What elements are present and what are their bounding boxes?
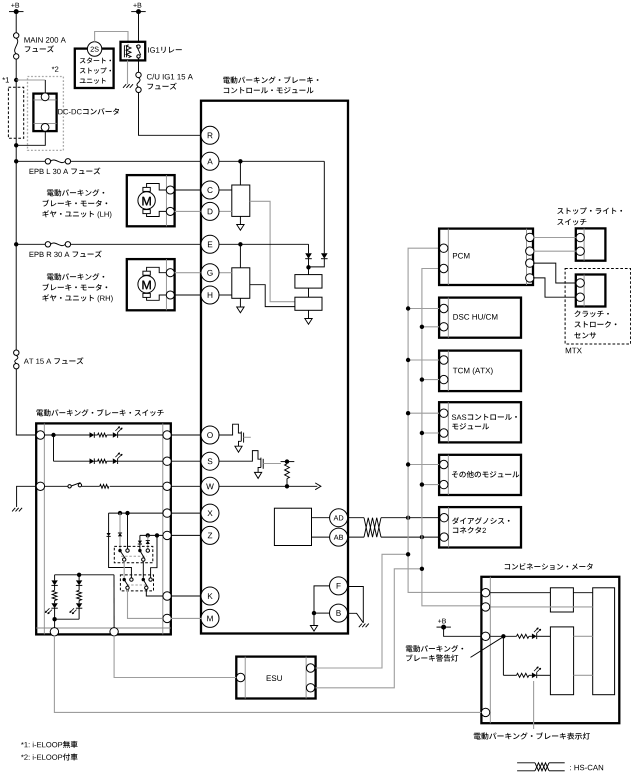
regulator block upper — [295, 275, 322, 289]
wire rail to AT fuse — [15, 244, 17, 350]
twisted pair braid AD/AB — [364, 518, 381, 537]
LED indicator lamp — [529, 667, 551, 678]
resistor indicator lamp — [517, 673, 529, 677]
label PCM — [453, 253, 469, 259]
terminal E — [201, 235, 219, 253]
wire Z mid branch 2 — [147, 544, 149, 549]
terminal O — [201, 426, 219, 444]
label AT 15 A fuse — [24, 357, 84, 364]
node DSC bus1 — [406, 306, 410, 310]
switch contact UL — [118, 549, 129, 561]
wire UL to lower block — [123, 561, 125, 578]
wire DSC to bus2 — [422, 326, 439, 328]
terminal switch X-right — [163, 509, 171, 517]
EPB switch connector strips — [36, 423, 171, 634]
wire AD to braid — [347, 517, 364, 519]
wire G to driver RH — [219, 272, 232, 274]
wire A-row internal — [219, 160, 324, 162]
relay IG1 coil — [124, 45, 131, 58]
wire pull-up top bar — [281, 459, 295, 463]
terminal motor RH pins — [166, 269, 174, 299]
clutch stroke sensor box — [576, 275, 606, 307]
fuse AT 15 A — [14, 350, 19, 369]
wire X mid branch 2 — [119, 537, 121, 550]
label diagnosis connector 2 — [452, 517, 510, 533]
node Z branch 2 — [155, 533, 159, 537]
node X branch 1 — [118, 511, 122, 515]
terminal A — [201, 152, 219, 170]
wire left rail — [15, 80, 17, 161]
wire O to transistor Q1 — [219, 424, 242, 435]
terminal switch bottom-1 — [50, 628, 58, 636]
wire driver RH ground stem — [239, 298, 241, 307]
terminal G — [201, 264, 219, 282]
fuse MAIN 200 A — [14, 33, 19, 59]
wire regulator ground stem — [308, 310, 310, 318]
wire D to driver LH — [219, 210, 232, 212]
label MTX — [566, 348, 582, 354]
wire A node to driver LH — [239, 161, 241, 185]
wire +B to MAIN fuse — [15, 12, 17, 33]
wire PCM to stop light switch 2 — [533, 250, 576, 252]
wire Z terminal to module — [171, 534, 201, 536]
resistor O row — [98, 433, 107, 437]
diode D2 (A branch) — [321, 253, 328, 258]
PCM box — [439, 229, 533, 285]
terminal B — [330, 604, 348, 622]
wire relay coil to ground — [127, 60, 129, 84]
terminal H — [201, 286, 219, 304]
wire Z left branch 2 — [139, 544, 141, 549]
node strings bottom — [52, 617, 56, 621]
PCM terminals left — [440, 244, 448, 273]
wire C to driver LH — [219, 189, 232, 191]
relay IG1 box — [121, 42, 146, 61]
stop light switch terminals — [576, 233, 584, 255]
dashed box *1 (i-ELOOP none) — [8, 87, 23, 138]
wire LL to M — [128, 590, 163, 619]
PCM terminals right — [526, 233, 534, 282]
wire lamp block to main 2 — [574, 674, 593, 676]
node other bus2 — [420, 482, 424, 486]
terminal switch S-right — [163, 457, 171, 465]
wire relay to C/U fuse — [138, 58, 140, 72]
wire E-row internal — [219, 243, 309, 245]
SAS control module box — [439, 402, 521, 442]
wire B internal — [314, 612, 330, 614]
wire DC-DC converter return — [16, 131, 45, 145]
wire 2S to relay coil — [95, 32, 128, 45]
DSC HU/CM box — [439, 298, 521, 338]
terminal switch bottom-2 — [110, 628, 118, 636]
terminal S — [201, 452, 219, 470]
label *2 — [52, 66, 59, 71]
relay IG1 contact — [136, 45, 141, 58]
node strings top — [77, 573, 81, 577]
node DSC bus2 — [420, 325, 424, 329]
wire AB to diagnosis — [381, 536, 439, 538]
wire S row — [54, 460, 163, 462]
wire O row — [45, 434, 163, 436]
terminal X — [201, 504, 219, 522]
terminal 2S — [87, 42, 101, 56]
wire switch to meter row4 — [54, 636, 481, 713]
label MAIN 200 A fuse — [24, 37, 65, 52]
resistor warning lamp — [517, 634, 529, 638]
wire E node to driver RH — [239, 244, 241, 267]
node A internal — [238, 159, 242, 163]
wire K terminal to module — [171, 595, 201, 597]
ESU terminals — [236, 664, 314, 692]
battery +B (meter) — [437, 619, 451, 630]
TCM terminals — [440, 356, 448, 384]
wire Z left branch — [139, 535, 141, 540]
node SAS bus2 — [420, 431, 424, 435]
TCM box — [439, 351, 521, 392]
switch contact LR — [142, 578, 153, 590]
leader warning lamp label — [471, 637, 504, 658]
wire SAS to bus2 — [422, 432, 439, 434]
label TCM (ATX) — [453, 368, 493, 375]
switch contact LL — [123, 578, 134, 590]
wire driver RH output — [250, 285, 295, 307]
wire X left branch 2 — [109, 537, 132, 578]
wire Z mid branch — [147, 535, 149, 540]
diagnosis connector 2 box — [439, 507, 521, 547]
diode O row — [90, 432, 95, 438]
label other modules — [452, 471, 519, 478]
wire W row — [45, 485, 163, 487]
wire TCM to bus2 — [422, 379, 439, 381]
label EPB indicator lamp — [474, 732, 590, 739]
wire A branch to diode — [323, 161, 325, 253]
wire TCM to bus1 — [408, 359, 439, 361]
ESU box — [236, 657, 315, 699]
SAS terminals — [440, 409, 448, 437]
node A-row on rail — [14, 159, 18, 163]
fuse C/U IG1 15 A — [136, 72, 141, 92]
wire Z row — [140, 534, 163, 536]
node W pull-up — [285, 484, 289, 488]
diode string1 top — [51, 575, 57, 586]
regulator block lower — [295, 297, 322, 310]
diode X left — [107, 533, 111, 536]
wire O terminal to module — [171, 434, 201, 436]
ground regulator — [305, 319, 312, 325]
EPB motor gear unit LH box — [127, 175, 175, 226]
wire X left branch — [108, 513, 110, 533]
note *1 — [21, 741, 78, 748]
wire rail to bottom terminal 2 — [113, 575, 115, 628]
label EPB motor gear unit LH — [42, 189, 111, 218]
wire X mid branch — [119, 513, 121, 533]
ground chassis F/B — [359, 624, 369, 628]
switch contact UR — [138, 549, 149, 561]
wire string1 bottom — [54, 608, 56, 627]
LED string2 — [70, 601, 83, 614]
wire node *1 to DC-DC converter — [16, 80, 45, 94]
fuse EPB R 30 A — [45, 242, 70, 247]
wire H to driver RH — [219, 294, 232, 296]
wire W internal — [219, 485, 317, 487]
wire meter row1 — [490, 592, 550, 594]
wire UR to lower block — [142, 561, 144, 578]
resistor string1 — [52, 585, 57, 600]
switch lower mechanical link — [127, 584, 148, 586]
meter lamp block — [550, 627, 573, 695]
meter main block — [593, 588, 615, 695]
other modules terminals — [440, 460, 448, 489]
label EPB control module — [223, 76, 318, 93]
wire AB to braid — [347, 536, 364, 538]
node O/S branch — [51, 433, 55, 437]
label DC-DC converter — [58, 108, 119, 115]
wire motor RH to terminal G — [175, 272, 202, 274]
ground transistor Q2 — [255, 472, 262, 478]
LED S row — [113, 453, 122, 464]
terminal D — [201, 202, 219, 220]
wire MAIN fuse to node *1 — [15, 59, 17, 80]
dashed box *2 (i-ELOOP equipped) — [28, 77, 64, 151]
wire LR to K — [146, 590, 163, 597]
wire string2 bottom — [55, 608, 80, 619]
node SAS bus1 — [406, 411, 410, 415]
wire EPB L fuse to terminal A — [71, 160, 202, 162]
fuse EPB L 30 A — [45, 159, 70, 164]
terminal switch Z-right — [163, 531, 171, 539]
terminal motor LH pins — [166, 186, 174, 216]
node Z branch 1 — [146, 533, 150, 537]
label DSC HU/CM — [453, 314, 497, 320]
resistor S row — [98, 459, 107, 463]
leader indicator lamp label — [533, 681, 535, 729]
wire ESU to bus1 — [316, 554, 409, 668]
wire SAS to bus1 — [408, 412, 439, 414]
wire other to bus1 — [408, 464, 439, 466]
node E internal — [238, 242, 242, 246]
label EPB switch — [36, 409, 163, 416]
label combination meter — [505, 563, 593, 570]
motor M LH — [138, 187, 155, 213]
wire EPB R fuse to terminal E — [71, 243, 202, 245]
wire CAN block to AD — [312, 517, 330, 519]
label ESU — [267, 675, 282, 681]
wire F/B ground stem — [313, 613, 315, 625]
terminal K — [201, 587, 219, 605]
node diodes junction — [306, 259, 310, 275]
LED warning lamp — [529, 628, 551, 639]
ground driver LH — [237, 225, 244, 231]
transistor Q1 — [239, 431, 251, 446]
ground relay coil — [123, 84, 133, 88]
wire AT fuse to switch box — [16, 369, 36, 435]
wire X row — [109, 512, 163, 514]
start-stop unit box — [75, 49, 114, 88]
wire meter row2 — [490, 606, 592, 608]
combination meter box — [481, 577, 619, 723]
wire switch to ESU — [114, 636, 236, 678]
label EPB L 30 A fuse — [30, 167, 101, 174]
other modules box — [439, 455, 521, 495]
wire regulator blocks link — [308, 288, 310, 297]
ground W — [12, 508, 22, 512]
wire HS-CAN bus 2 — [422, 269, 482, 606]
wire F internal to ground — [314, 586, 330, 613]
wire +B to meter — [444, 627, 482, 636]
legend HS-CAN symbol — [517, 763, 565, 771]
wire driver LH output — [250, 201, 295, 301]
clutch stroke sensor terminals — [576, 279, 584, 302]
wire rail to EPB L fuse — [16, 160, 45, 162]
EPB control module box — [201, 101, 348, 634]
diode string2 top — [76, 575, 82, 586]
wire PCM to clutch sensor 2 — [533, 278, 576, 297]
DSC terminals — [440, 304, 448, 331]
node TCM bus2 — [420, 377, 424, 381]
wire motor RH to terminal H — [175, 294, 202, 296]
terminal AD — [330, 509, 348, 527]
diode D1 (E branch) — [305, 253, 312, 258]
wire S branch — [53, 435, 55, 461]
wire M terminal to module — [171, 617, 201, 619]
wire X terminal to module — [171, 512, 201, 514]
EPB motor gear unit RH box — [127, 259, 175, 310]
LED string1 — [45, 601, 58, 614]
dashed box MTX — [565, 269, 631, 345]
resistor string2 — [77, 585, 82, 600]
diode Z left — [138, 541, 142, 544]
wire motor LH to terminal C — [175, 189, 202, 191]
node E-row on rail — [14, 161, 18, 246]
node TCM bus1 — [406, 358, 410, 362]
ground driver RH — [237, 307, 244, 313]
terminal M — [201, 609, 219, 627]
wire HS-CAN bus 1 — [408, 248, 482, 592]
ground F/B internal — [310, 626, 317, 632]
diagnosis terminals — [440, 514, 448, 542]
wire other to bus2 — [422, 484, 439, 486]
wire meter row3 — [490, 635, 516, 637]
transistor Q2 — [258, 458, 281, 473]
wire E branch to diode — [308, 244, 310, 253]
wire AD to diagnosis — [381, 517, 439, 519]
node F/B ground — [312, 611, 316, 615]
terminal switch W-left — [36, 482, 44, 490]
wire strings top rail — [55, 574, 114, 576]
wire B external — [347, 613, 363, 623]
label EPB R 30 A fuse — [30, 250, 102, 257]
node warning lamp branch — [501, 634, 505, 638]
arrow W continuation — [315, 483, 321, 490]
terminal Z — [201, 526, 219, 544]
ground transistor Q1 — [235, 446, 242, 452]
wire rail to EPB R fuse — [16, 243, 45, 245]
terminal AB — [330, 528, 348, 546]
label clutch stroke sensor — [574, 310, 616, 338]
meter CAN block — [550, 588, 573, 612]
node ESU bus2 — [420, 567, 424, 571]
terminal switch K-right — [163, 592, 171, 600]
wire S terminal to module — [171, 460, 201, 462]
wire PCM to clutch sensor 1 — [533, 263, 576, 283]
battery +B (left) — [9, 3, 24, 14]
wire driver LH ground stem — [239, 216, 241, 224]
terminal switch W-right — [163, 482, 171, 490]
wire X right branch — [127, 513, 129, 549]
wire indicator branch — [503, 636, 516, 675]
switch block upper dashed — [114, 546, 153, 562]
wire S to transistor Q2 — [219, 451, 261, 462]
wire F external — [347, 587, 363, 623]
driver RH (G/H) — [232, 268, 250, 299]
label start-stop unit — [80, 57, 111, 83]
node AD bus1 — [406, 516, 410, 520]
terminal switch O-right — [163, 431, 171, 439]
EPB switch box — [36, 423, 171, 634]
battery +B (IG1) — [131, 3, 146, 14]
label C/U IG1 15 A fuse — [147, 74, 193, 90]
terminal C — [201, 181, 219, 199]
label HS-CAN — [570, 765, 603, 771]
wire lamp block to main 1 — [574, 635, 593, 637]
note *2 — [21, 753, 78, 760]
label IG1 relay — [148, 47, 182, 53]
wire +B to IG1 relay contact — [138, 12, 140, 44]
stop light switch box — [576, 228, 606, 260]
node AB bus2 — [420, 535, 424, 539]
CAN transceiver block U2 — [274, 508, 311, 545]
label stop light switch — [557, 207, 622, 225]
node DC-DC return — [14, 143, 18, 147]
LED O row — [113, 427, 122, 438]
switch W contact — [68, 483, 82, 488]
terminal R — [201, 126, 219, 144]
wire C/U fuse to terminal R — [139, 93, 202, 136]
switch block lower dashed — [120, 575, 153, 591]
node *1 — [2, 77, 18, 82]
wire W terminal to module — [171, 485, 201, 487]
wire motor LH to terminal D — [175, 210, 202, 212]
terminal switch M-right — [163, 614, 171, 622]
wire Z right branch — [151, 535, 157, 578]
wire diode D2 to node — [309, 259, 325, 267]
motor M RH — [138, 271, 155, 297]
label EPB motor gear unit RH — [42, 273, 112, 302]
meter terminals — [481, 589, 489, 717]
wire meter CAN to main — [573, 592, 592, 594]
wire W external ground — [17, 486, 37, 507]
node ESU bus1 — [406, 552, 410, 556]
terminal W — [201, 477, 219, 495]
wire PCM to stop light switch 1 — [533, 237, 576, 239]
diode S row — [90, 458, 95, 464]
DC-DC converter U1 — [33, 93, 56, 131]
node X branch 2 — [125, 511, 129, 515]
terminal F — [330, 577, 348, 595]
wire motor RH internal — [147, 267, 167, 300]
wire ESU to bus2 — [316, 569, 422, 688]
diode X mid — [118, 533, 122, 536]
diode Z mid — [146, 541, 150, 544]
wire motor LH internal — [147, 184, 167, 217]
label SAS control module — [452, 414, 517, 430]
label EPB warning lamp — [406, 645, 463, 662]
terminal switch O-feed — [36, 431, 44, 439]
switch upper mechanical link — [121, 555, 147, 557]
resistor pull-up — [285, 464, 290, 487]
wire DSC to bus1 — [408, 308, 439, 310]
driver LH (C/D) — [232, 185, 250, 216]
